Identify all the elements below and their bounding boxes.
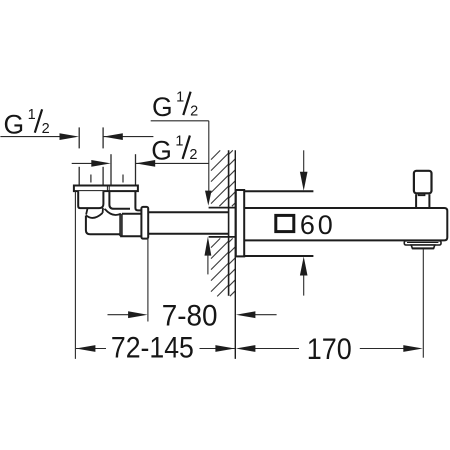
- barrel right portion: [120, 214, 141, 237]
- barrel intersection curve right: [105, 209, 121, 215]
- extension line at union nut: [147, 238, 149, 322]
- extension line at outlet centre: [422, 249, 424, 357]
- svg-text:60: 60: [300, 210, 336, 240]
- elbow neck below left body: [86, 208, 105, 215]
- svg-text:1: 1: [176, 90, 184, 106]
- up arrow at socket bottom: [205, 237, 212, 256]
- svg-text:G: G: [151, 136, 172, 166]
- elbow right valve body: [135, 191, 141, 210]
- dim 7-80 line right part: [253, 314, 277, 316]
- svg-text:G: G: [152, 92, 173, 122]
- aerator outlet tier 1: [404, 241, 441, 245]
- knob notch: [419, 193, 425, 195]
- square symbol of 60 dim: [276, 215, 294, 231]
- dim: left G1/2 underline and pipe-width arrows: [0, 136, 153, 138]
- extension line at union flange left: [74, 191, 76, 359]
- diverter knob: [414, 171, 432, 194]
- union nut: [141, 207, 148, 239]
- down arrow at socket top: [205, 191, 212, 206]
- tail of socket up arrow: [207, 253, 209, 274]
- spout wall flange: [236, 190, 244, 256]
- dim 7-80 line left part: [108, 314, 129, 316]
- wall band hatch: [229, 150, 236, 296]
- dim 170 line: [254, 348, 405, 350]
- barrel intersection curve left: [86, 213, 103, 218]
- wall hatch: [211, 150, 229, 296]
- svg-text:1: 1: [175, 133, 183, 149]
- dim 72-145 line: [76, 348, 235, 350]
- arrow at left pipe right edge: [103, 133, 123, 140]
- union flange plate: [74, 186, 138, 192]
- horizontal pipe to wall: [148, 212, 228, 234]
- knob stem: [416, 194, 429, 207]
- aerator bottom edge: [412, 247, 434, 249]
- label G 1/2 (middle): [151, 133, 197, 165]
- wall inner line: [228, 150, 230, 296]
- label G 1/2 (top): [152, 90, 198, 122]
- label G 1/2 (left): [4, 107, 50, 139]
- elbow left valve body: [78, 191, 103, 208]
- svg-text:G: G: [4, 110, 25, 140]
- svg-text:72-145: 72-145: [111, 331, 194, 364]
- aerator outlet tier 2: [411, 245, 435, 248]
- svg-text:2: 2: [190, 103, 198, 119]
- 60-dim up arrow: [303, 275, 305, 295]
- arrow at right pipe right edge: [136, 160, 156, 167]
- 60-dim down arrow: [303, 150, 305, 173]
- right supply pipe (vertical): [111, 154, 136, 185]
- left supply pipe (vertical, broken): [79, 127, 103, 185]
- spout mounting block top line: [244, 190, 313, 192]
- svg-text:2: 2: [42, 121, 50, 137]
- svg-text:1: 1: [28, 107, 36, 123]
- svg-text:170: 170: [307, 333, 352, 366]
- dim: middle G1/2 pipe-width arrows: [72, 162, 209, 164]
- wall socket thread lines: [209, 208, 235, 237]
- arrow at left pipe left edge: [60, 133, 80, 140]
- wall face line: [234, 150, 236, 359]
- aerator rim line: [407, 242, 438, 244]
- leader of top G1/2 down to wall socket: [151, 121, 209, 192]
- svg-text:2: 2: [189, 147, 197, 163]
- elbow horizontal barrel left portion: [86, 216, 120, 235]
- spout mounting block bottom line: [244, 255, 313, 257]
- arrow at right pipe left edge: [91, 160, 111, 167]
- spout arm: [244, 208, 447, 240]
- elbow casting step: [120, 214, 122, 236]
- svg-text:7-80: 7-80: [162, 299, 218, 332]
